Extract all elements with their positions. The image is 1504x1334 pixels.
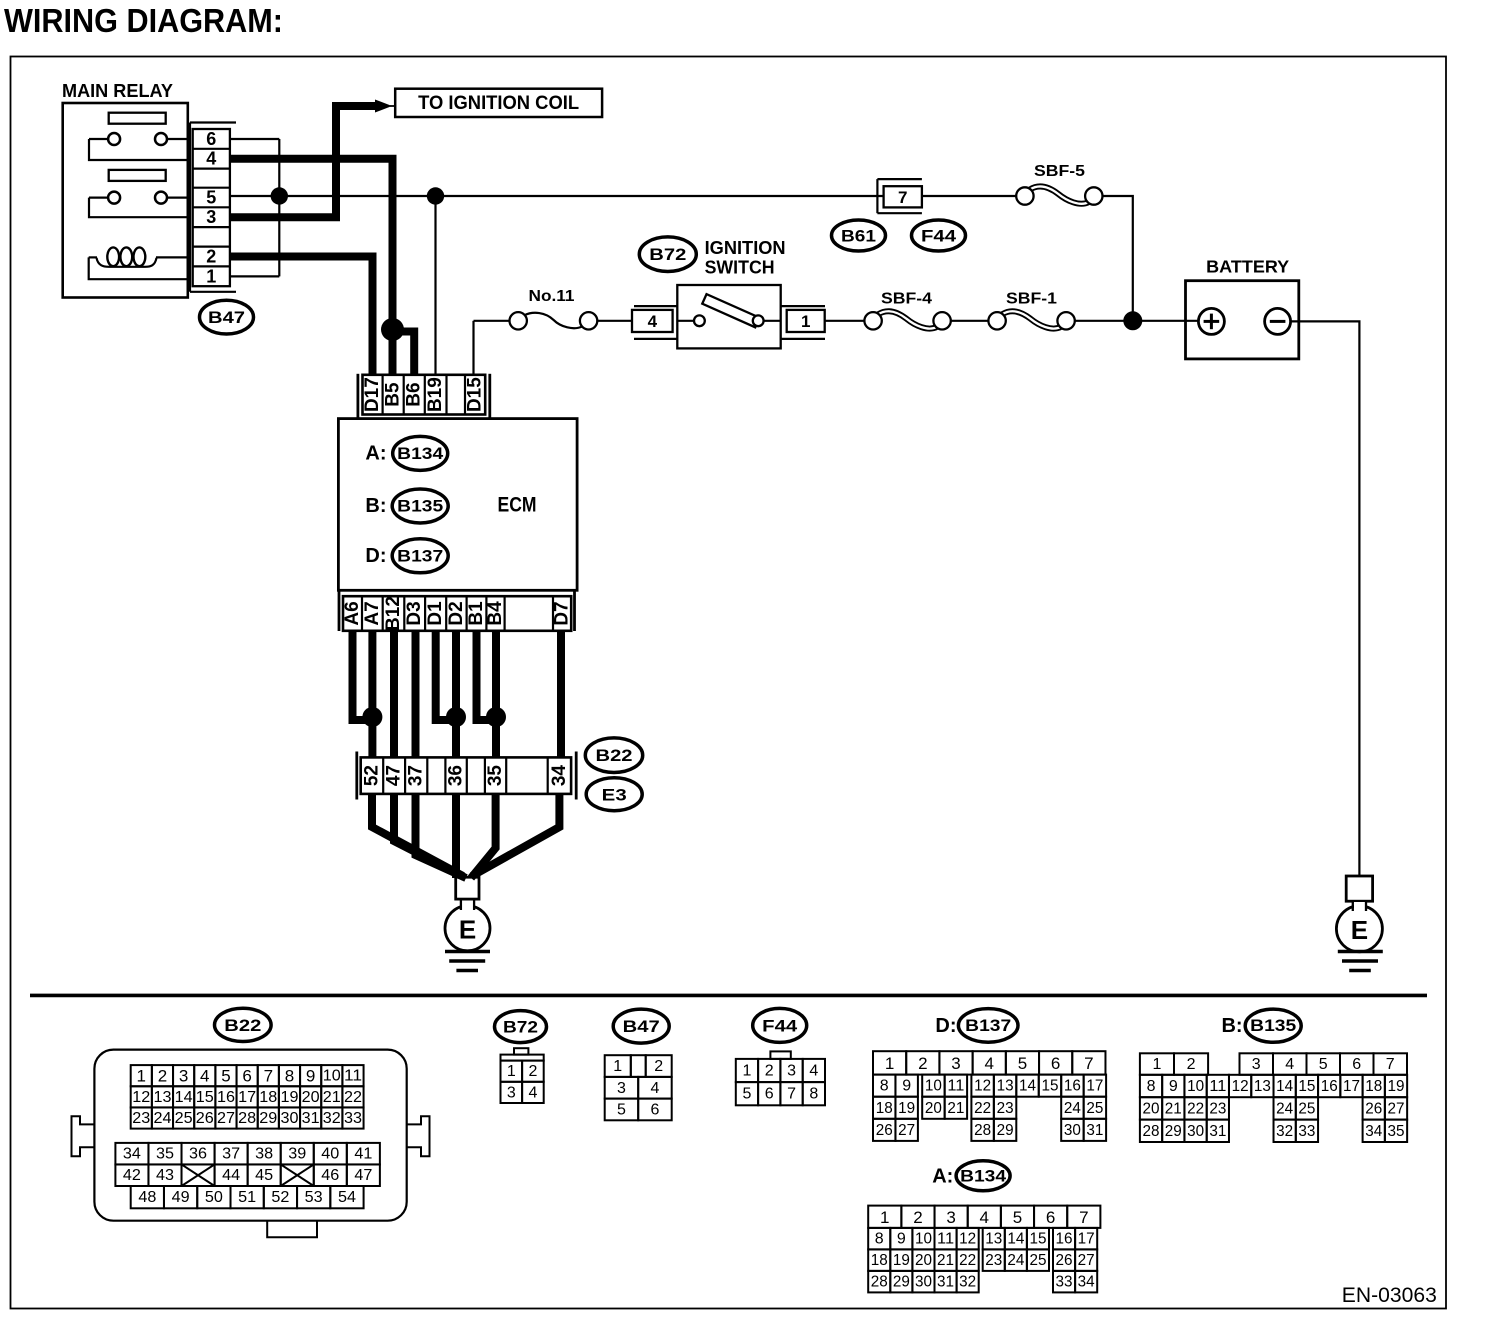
svg-text:35: 35 <box>156 1146 174 1163</box>
svg-text:32: 32 <box>323 1110 341 1127</box>
svg-text:MAIN RELAY: MAIN RELAY <box>62 81 173 101</box>
relay contact a2 <box>108 192 120 204</box>
ground E circle right <box>1336 906 1382 952</box>
battery minus terminal <box>1265 308 1291 334</box>
connector 7 bracket <box>877 178 922 180</box>
svg-text:23: 23 <box>985 1252 1002 1269</box>
svg-text:27: 27 <box>1078 1252 1095 1269</box>
svg-text:47: 47 <box>354 1167 372 1184</box>
svg-text:15: 15 <box>1041 1078 1058 1095</box>
svg-text:9: 9 <box>897 1231 906 1248</box>
switch lever <box>702 294 759 327</box>
svg-text:29: 29 <box>1165 1123 1182 1140</box>
svg-text:34: 34 <box>549 765 570 787</box>
connector B47 pinout ellipse <box>613 1009 669 1043</box>
svg-text:6: 6 <box>242 1067 251 1086</box>
connector B47 ellipse <box>200 300 254 334</box>
svg-text:5: 5 <box>206 188 216 208</box>
svg-text:8: 8 <box>285 1067 294 1086</box>
svg-text:30: 30 <box>280 1110 298 1127</box>
svg-text:8: 8 <box>809 1086 818 1103</box>
svg-text:5: 5 <box>617 1101 626 1118</box>
connector B22 pinout ellipse <box>215 1008 272 1041</box>
svg-text:6: 6 <box>765 1086 774 1103</box>
svg-text:2: 2 <box>158 1067 167 1086</box>
svg-text:22: 22 <box>344 1089 362 1106</box>
switch contact right <box>753 315 764 326</box>
svg-text:54: 54 <box>338 1189 356 1206</box>
svg-text:17: 17 <box>1343 1078 1360 1095</box>
svg-text:40: 40 <box>321 1146 339 1163</box>
svg-text:SWITCH: SWITCH <box>705 258 775 278</box>
svg-text:25: 25 <box>175 1110 193 1127</box>
wire contact1 to pin4 <box>89 139 189 160</box>
wire vertical pin6-pin1 <box>278 139 280 276</box>
coil to pin1 wire <box>89 257 189 279</box>
B135 pin grid <box>1140 1053 1174 1075</box>
svg-text:5: 5 <box>221 1067 230 1086</box>
svg-text:31: 31 <box>1086 1122 1103 1139</box>
svg-text:13: 13 <box>153 1089 171 1106</box>
wire contact b1 to pin6 <box>167 138 189 140</box>
svg-text:33: 33 <box>1056 1274 1073 1291</box>
wire pin3 to ignition coil <box>230 106 377 217</box>
ignition switch box <box>677 285 780 348</box>
svg-text:16: 16 <box>1064 1078 1081 1095</box>
svg-text:31: 31 <box>937 1274 954 1291</box>
svg-text:20: 20 <box>915 1252 932 1269</box>
svg-text:4: 4 <box>980 1208 989 1227</box>
svg-text:34: 34 <box>1078 1274 1095 1291</box>
svg-text:B134: B134 <box>397 445 444 463</box>
svg-text:6: 6 <box>1352 1056 1361 1073</box>
svg-text:17: 17 <box>1086 1078 1103 1095</box>
junction pin4/B5/B6 <box>381 318 404 341</box>
svg-text:15: 15 <box>196 1089 214 1106</box>
svg-text:2: 2 <box>528 1063 537 1080</box>
junction B1/B4 <box>486 707 506 727</box>
svg-text:1: 1 <box>206 266 216 286</box>
wire A7 to 52 <box>368 631 376 758</box>
wire SBF-4 to SBF-1 <box>951 320 989 322</box>
ECM top connector cells <box>363 375 486 415</box>
wire 35 to ground node <box>471 794 496 878</box>
svg-text:5: 5 <box>742 1086 751 1103</box>
relay contact bar 2 <box>109 170 166 181</box>
svg-text:B:: B: <box>1221 1015 1242 1037</box>
relay contact a1 <box>108 133 120 145</box>
connector B134 pinout ellipse <box>956 1161 1010 1191</box>
svg-text:34: 34 <box>123 1146 141 1163</box>
svg-text:11: 11 <box>344 1068 362 1085</box>
connector B61 ellipse <box>832 220 886 251</box>
svg-text:21: 21 <box>323 1089 341 1106</box>
arrowhead to ignition coil <box>375 100 392 113</box>
svg-text:11: 11 <box>937 1231 954 1248</box>
connector B135 ellipse <box>392 489 448 523</box>
svg-text:10: 10 <box>915 1231 932 1248</box>
svg-text:16: 16 <box>1321 1078 1338 1095</box>
svg-text:D7: D7 <box>552 601 573 625</box>
svg-text:B4: B4 <box>485 601 506 626</box>
svg-text:D2: D2 <box>446 601 467 625</box>
ECM bottom connector cells <box>343 596 571 631</box>
wire contact a2 stub <box>89 197 108 199</box>
svg-text:4: 4 <box>206 149 216 169</box>
fuse SBF-1 <box>1002 311 1061 328</box>
junction pin5/pin6 wire <box>271 187 288 204</box>
svg-text:39: 39 <box>288 1146 306 1163</box>
svg-text:15: 15 <box>1029 1231 1046 1248</box>
main relay box <box>63 103 188 298</box>
wire junction to B5 <box>389 327 397 374</box>
svg-text:12: 12 <box>1232 1078 1249 1095</box>
svg-text:23: 23 <box>997 1100 1014 1117</box>
svg-text:5: 5 <box>1319 1056 1328 1073</box>
ECM box <box>338 419 577 591</box>
svg-text:2: 2 <box>206 247 216 267</box>
svg-text:18: 18 <box>876 1100 893 1117</box>
svg-text:33: 33 <box>344 1110 362 1127</box>
battery plus terminal <box>1198 308 1224 334</box>
svg-text:8: 8 <box>880 1078 889 1095</box>
svg-text:28: 28 <box>238 1110 256 1127</box>
connector B137 ellipse <box>392 539 448 573</box>
svg-text:F44: F44 <box>762 1016 798 1035</box>
svg-text:B134: B134 <box>960 1167 1007 1185</box>
relay coil <box>107 247 119 266</box>
svg-text:50: 50 <box>205 1189 223 1206</box>
svg-text:D3: D3 <box>404 601 425 625</box>
B22 pin grid 34-47 <box>115 1143 148 1165</box>
svg-text:2: 2 <box>913 1208 922 1227</box>
svg-text:27: 27 <box>217 1110 235 1127</box>
svg-text:25: 25 <box>1298 1100 1315 1117</box>
svg-text:32: 32 <box>1276 1123 1293 1140</box>
svg-text:12: 12 <box>132 1089 150 1106</box>
svg-text:B47: B47 <box>623 1017 660 1036</box>
svg-text:7: 7 <box>1084 1054 1093 1073</box>
wire battery minus to ground <box>1291 321 1360 876</box>
svg-text:B137: B137 <box>965 1017 1011 1035</box>
svg-text:26: 26 <box>196 1110 214 1127</box>
svg-text:8: 8 <box>875 1231 884 1248</box>
junction D1/D2 <box>446 707 466 727</box>
svg-text:B61: B61 <box>841 227 876 246</box>
connector pin 7 box <box>884 186 922 207</box>
svg-text:B72: B72 <box>649 245 686 264</box>
svg-text:B22: B22 <box>224 1016 261 1035</box>
wire B1 <box>477 631 493 720</box>
wire junction to B6 <box>393 332 415 375</box>
svg-text:13: 13 <box>997 1078 1014 1095</box>
svg-text:4: 4 <box>648 312 658 331</box>
wire contact2 to pin3 <box>89 198 189 218</box>
connector F44 ellipse <box>912 220 966 251</box>
coil left lead <box>89 256 97 258</box>
svg-text:23: 23 <box>132 1110 150 1127</box>
svg-text:1: 1 <box>613 1058 622 1075</box>
svg-text:20: 20 <box>1143 1100 1160 1117</box>
wire contact b2 to pin5 <box>167 197 189 199</box>
svg-text:31: 31 <box>302 1110 320 1127</box>
wire pin4 to junction <box>230 159 393 328</box>
ground E terminal box right <box>1346 876 1372 901</box>
svg-text:B135: B135 <box>1250 1017 1296 1035</box>
svg-text:7: 7 <box>264 1067 273 1086</box>
wire 47 to ground node <box>394 794 464 877</box>
wire pin1 <box>230 275 279 277</box>
svg-text:30: 30 <box>1064 1122 1081 1139</box>
svg-text:19: 19 <box>893 1252 910 1269</box>
svg-text:A7: A7 <box>362 601 383 625</box>
svg-text:ECM: ECM <box>498 494 537 517</box>
connector B137 pinout ellipse <box>958 1009 1018 1043</box>
svg-text:35: 35 <box>1388 1123 1405 1140</box>
wire pin1 to SBF-4 <box>825 320 865 322</box>
svg-text:20: 20 <box>925 1100 942 1117</box>
junction SBF-5/battery wire <box>1123 311 1142 330</box>
svg-text:B12: B12 <box>383 596 404 631</box>
svg-text:2: 2 <box>765 1063 774 1080</box>
svg-text:9: 9 <box>306 1067 315 1086</box>
fuse SBF-4 <box>878 311 937 328</box>
svg-text:13: 13 <box>985 1231 1002 1248</box>
svg-text:12: 12 <box>974 1078 991 1095</box>
wire SBF-1 to battery <box>1075 320 1199 322</box>
svg-text:B1: B1 <box>466 601 487 626</box>
ground E circle <box>445 906 490 951</box>
svg-text:A:: A: <box>932 1165 953 1187</box>
svg-text:10: 10 <box>925 1078 942 1095</box>
svg-text:5: 5 <box>1018 1054 1027 1073</box>
svg-text:21: 21 <box>1165 1100 1182 1117</box>
B22 pin grid 48-54 <box>131 1186 164 1208</box>
fuse SBF-5 <box>1030 186 1089 203</box>
svg-text:B5: B5 <box>383 382 404 407</box>
wire pin5 long feed to connector 7 <box>230 195 884 197</box>
svg-text:EN-03063: EN-03063 <box>1342 1284 1437 1307</box>
svg-text:29: 29 <box>997 1122 1014 1139</box>
svg-text:17: 17 <box>238 1089 256 1106</box>
svg-text:14: 14 <box>1019 1078 1036 1095</box>
svg-text:7: 7 <box>1386 1056 1395 1073</box>
wire D3 to 37 <box>412 631 420 758</box>
svg-text:SBF-1: SBF-1 <box>1006 291 1057 308</box>
B22 housing bottom tab <box>267 1221 317 1238</box>
junction feed/B19 <box>427 187 444 204</box>
svg-text:19: 19 <box>898 1100 915 1117</box>
svg-text:33: 33 <box>1298 1123 1315 1140</box>
svg-text:3: 3 <box>507 1084 516 1101</box>
svg-text:21: 21 <box>937 1252 954 1269</box>
svg-text:1: 1 <box>801 312 810 331</box>
ECM top connector shell <box>356 374 359 419</box>
svg-text:52: 52 <box>362 765 383 786</box>
svg-text:35: 35 <box>485 765 506 787</box>
svg-text:41: 41 <box>354 1146 372 1163</box>
svg-text:14: 14 <box>1007 1231 1024 1248</box>
B22 housing <box>94 1050 406 1221</box>
svg-text:21: 21 <box>947 1100 964 1117</box>
svg-text:24: 24 <box>1007 1252 1024 1269</box>
svg-text:13: 13 <box>1254 1078 1271 1095</box>
svg-text:24: 24 <box>1064 1100 1081 1117</box>
svg-text:6: 6 <box>1046 1208 1055 1227</box>
svg-text:WIRING DIAGRAM:: WIRING DIAGRAM: <box>4 2 283 39</box>
junction A6/A7 <box>362 707 382 727</box>
relay contact b2 <box>155 192 167 204</box>
svg-text:20: 20 <box>302 1089 320 1106</box>
svg-text:SBF-5: SBF-5 <box>1034 163 1085 180</box>
svg-text:10: 10 <box>1187 1078 1204 1095</box>
svg-text:32: 32 <box>959 1274 976 1291</box>
wire fuse to pin4 <box>597 320 632 322</box>
svg-text:24: 24 <box>153 1110 171 1127</box>
svg-text:A:: A: <box>365 442 386 464</box>
svg-text:B47: B47 <box>208 308 245 327</box>
svg-text:No.11: No.11 <box>529 288 575 305</box>
svg-text:18: 18 <box>871 1252 888 1269</box>
B22 housing left tab <box>72 1116 95 1156</box>
svg-text:4: 4 <box>650 1080 659 1097</box>
svg-text:2: 2 <box>1187 1056 1196 1073</box>
wire D7 to 34 <box>557 631 565 758</box>
svg-text:34: 34 <box>1365 1123 1382 1140</box>
svg-text:25: 25 <box>1029 1252 1046 1269</box>
svg-text:25: 25 <box>1086 1100 1103 1117</box>
to ignition coil box <box>395 89 602 117</box>
svg-text:31: 31 <box>1209 1123 1226 1140</box>
connector B72 ellipse <box>639 237 696 272</box>
svg-text:18: 18 <box>1365 1078 1382 1095</box>
wire contact a1 stub <box>89 138 108 140</box>
svg-text:SBF-4: SBF-4 <box>881 291 932 308</box>
svg-text:26: 26 <box>1056 1252 1073 1269</box>
svg-text:28: 28 <box>974 1122 991 1139</box>
svg-text:D17: D17 <box>362 377 383 412</box>
svg-text:28: 28 <box>871 1274 888 1291</box>
ECM bottom connector shell <box>338 591 341 631</box>
svg-text:4: 4 <box>809 1063 818 1080</box>
svg-text:52: 52 <box>271 1189 289 1206</box>
relay contact b1 <box>155 133 167 145</box>
svg-text:51: 51 <box>238 1189 256 1206</box>
svg-text:2: 2 <box>654 1058 663 1075</box>
wire A6 <box>353 631 369 720</box>
wire B4 to 35 <box>492 631 500 758</box>
svg-text:1: 1 <box>137 1067 146 1086</box>
svg-text:10: 10 <box>323 1068 341 1085</box>
svg-text:37: 37 <box>222 1146 240 1163</box>
relay contact bar 1 <box>109 113 166 124</box>
wire 7 to SBF-5 <box>922 195 1016 197</box>
svg-text:3: 3 <box>617 1080 626 1097</box>
wire B12 to 47 <box>390 631 398 758</box>
svg-text:22: 22 <box>974 1100 991 1117</box>
svg-text:D15: D15 <box>465 377 486 412</box>
connector B72 pinout ellipse <box>495 1011 547 1043</box>
svg-text:30: 30 <box>1187 1123 1204 1140</box>
svg-text:36: 36 <box>446 765 467 786</box>
ignition switch pin 4 <box>634 305 677 307</box>
fuse No.11 <box>524 313 582 328</box>
svg-text:B:: B: <box>365 495 386 517</box>
svg-text:B19: B19 <box>425 377 446 412</box>
svg-text:28: 28 <box>1143 1123 1160 1140</box>
svg-text:E3: E3 <box>602 786 627 805</box>
svg-text:47: 47 <box>384 765 405 786</box>
svg-text:18: 18 <box>259 1089 277 1106</box>
svg-text:TO IGNITION COIL: TO IGNITION COIL <box>418 93 579 114</box>
B137 pin grid <box>873 1051 906 1074</box>
svg-text:D1: D1 <box>425 601 446 626</box>
svg-text:7: 7 <box>898 188 907 207</box>
svg-text:3: 3 <box>179 1067 188 1086</box>
svg-text:14: 14 <box>1276 1078 1293 1095</box>
svg-text:4: 4 <box>200 1067 209 1086</box>
svg-text:45: 45 <box>255 1167 273 1184</box>
svg-text:11: 11 <box>947 1078 964 1095</box>
wire D1 <box>436 631 451 720</box>
connector B47 shell <box>190 121 236 123</box>
switch contact left <box>694 315 705 326</box>
svg-text:38: 38 <box>255 1146 273 1163</box>
svg-text:4: 4 <box>985 1054 994 1073</box>
svg-text:D:: D: <box>365 545 386 567</box>
svg-text:9: 9 <box>1169 1078 1178 1095</box>
wire to B19 <box>434 196 436 374</box>
wire pin2 to D17 <box>230 257 373 375</box>
svg-text:1: 1 <box>507 1063 516 1080</box>
svg-text:3: 3 <box>951 1054 960 1073</box>
svg-text:17: 17 <box>1078 1231 1095 1248</box>
svg-text:7: 7 <box>787 1086 796 1103</box>
svg-text:43: 43 <box>156 1167 174 1184</box>
svg-text:D:: D: <box>935 1015 956 1037</box>
svg-text:22: 22 <box>959 1252 976 1269</box>
svg-text:3: 3 <box>1252 1056 1261 1073</box>
svg-text:29: 29 <box>259 1110 277 1127</box>
svg-text:9: 9 <box>902 1078 911 1095</box>
svg-text:B22: B22 <box>596 746 633 765</box>
connector B47 cells <box>193 129 230 286</box>
svg-text:49: 49 <box>172 1189 190 1206</box>
svg-text:16: 16 <box>217 1089 235 1106</box>
svg-text:1: 1 <box>880 1208 889 1227</box>
wire D2 to 36 <box>452 631 460 758</box>
svg-text:15: 15 <box>1298 1078 1315 1095</box>
svg-text:BATTERY: BATTERY <box>1206 257 1289 277</box>
svg-text:26: 26 <box>1365 1100 1382 1117</box>
svg-text:19: 19 <box>280 1089 298 1106</box>
F44 pinout box <box>770 1051 790 1059</box>
connector E3 ellipse <box>586 778 642 811</box>
svg-text:30: 30 <box>915 1274 932 1291</box>
svg-text:22: 22 <box>1187 1100 1204 1117</box>
svg-text:B135: B135 <box>397 498 443 516</box>
B47 pinout box <box>605 1055 631 1077</box>
svg-text:3: 3 <box>206 207 216 227</box>
svg-text:2: 2 <box>918 1054 927 1073</box>
svg-text:E: E <box>459 914 476 944</box>
svg-text:3: 3 <box>787 1063 796 1080</box>
svg-text:14: 14 <box>175 1089 193 1106</box>
svg-text:53: 53 <box>305 1189 323 1206</box>
svg-text:A6: A6 <box>342 601 363 625</box>
svg-text:11: 11 <box>1209 1078 1226 1095</box>
B22 pin grid 1-33 <box>131 1065 152 1086</box>
